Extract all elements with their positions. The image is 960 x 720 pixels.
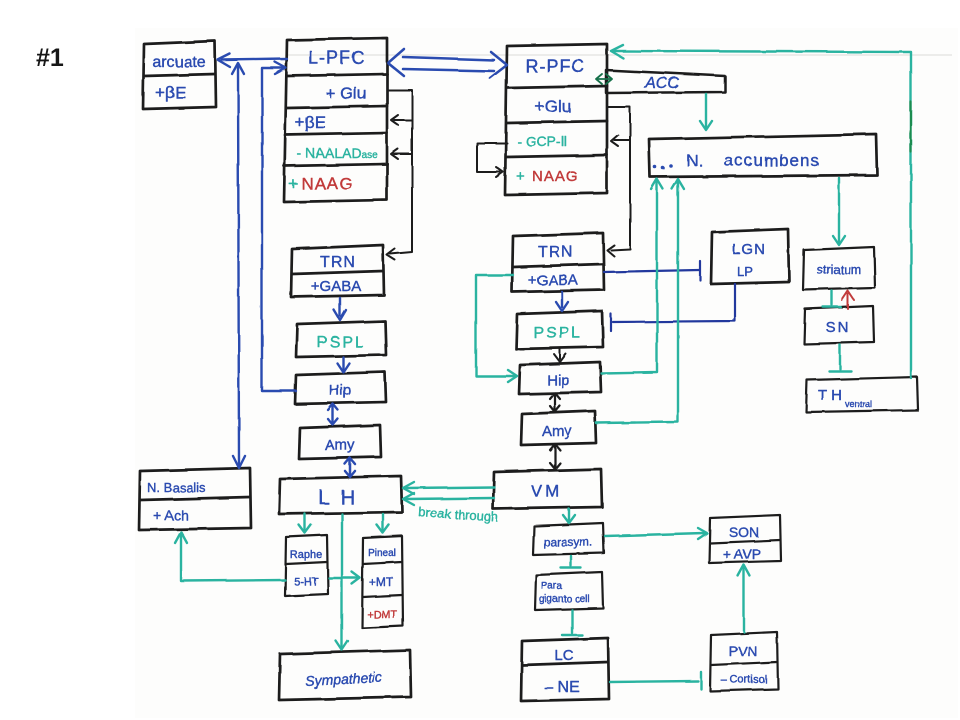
box para giganto cell: [535, 572, 603, 610]
wire SN inhibits TH (teal): [829, 345, 851, 371]
wire NE inhibits PVN (teal): [610, 672, 701, 689]
wire SN excites striatum (red): [842, 291, 854, 309]
svg-text:Amy: Amy: [542, 423, 573, 440]
svg-text:+: +: [516, 168, 525, 185]
wire PSPL-right to Hip-right (black): [554, 349, 566, 362]
box arcuate: [143, 41, 216, 109]
box N. Basalis: [139, 468, 251, 530]
box PSPL right: [516, 311, 603, 349]
svg-text:TRN: TRN: [320, 254, 356, 271]
wire Hip-left to Amy-left double arrow (blue): [328, 404, 338, 425]
svg-text:PSPL: PSPL: [317, 334, 366, 351]
photo top edge faint line: [286, 54, 952, 56]
svg-text:R-PFC: R-PFC: [525, 56, 585, 76]
svg-text:arcuate: arcuate: [152, 54, 205, 71]
wire N.accumbens to striatum (teal): [833, 178, 845, 245]
svg-text:Amy: Amy: [325, 437, 356, 454]
wire TRN-left to PSPL-left (blue): [334, 298, 346, 320]
box SON: [709, 515, 781, 563]
wire L-PFC to arcuate (blue): [218, 54, 287, 67]
wire 5-HT to +MT (teal): [329, 572, 360, 584]
box PSPL left: [296, 321, 386, 357]
label N. accumbens: [653, 164, 673, 170]
wire Amy-right to VM double arrow (black): [550, 444, 560, 469]
svg-text:ACC: ACC: [644, 75, 679, 92]
box N. accumbens: [649, 134, 877, 177]
svg-text:accumbens: accumbens: [724, 151, 820, 170]
wire Hip-right to Amy-right double arrow (black): [550, 393, 560, 412]
box TH ventral: [806, 377, 918, 412]
svg-text:ventral: ventral: [845, 399, 872, 409]
wire striatum inhibits SN (teal): [823, 291, 841, 307]
wire LH to Sympathetic (teal): [336, 514, 348, 650]
svg-text:N.: N.: [686, 151, 703, 170]
svg-text:+βE: +βE: [295, 113, 326, 132]
svg-text:– NE: – NE: [544, 679, 580, 696]
box striatum: [803, 247, 875, 290]
wire TRN-right to Hip-right loop (teal): [476, 275, 517, 382]
box Sympathetic: [279, 650, 411, 700]
wire parasym inhibits para-giganto (teal): [561, 556, 581, 568]
svg-text:5-HT: 5-HT: [294, 576, 319, 588]
wire R-stack feedback loop with arrows (black): [607, 107, 630, 256]
svg-text:+GABA: +GABA: [311, 278, 361, 295]
wire Hip-right to N.accumbens (teal): [601, 179, 663, 373]
svg-text:NAAG: NAAG: [532, 168, 579, 185]
svg-text:TH: TH: [818, 387, 846, 404]
svg-text:– Cortisol: – Cortisol: [721, 674, 767, 686]
box L-PFC stack: [284, 38, 387, 202]
svg-text:+ Ach: + Ach: [153, 507, 188, 523]
wire VM to LH double line break-through (teal): [403, 482, 494, 505]
box Hip right: [519, 362, 601, 394]
wire parasym to SON (teal): [605, 528, 707, 539]
wire Amy-right to N.accumbens (teal): [596, 179, 684, 423]
wire LH to Raphe (teal): [299, 514, 311, 533]
svg-text:+MT: +MT: [369, 575, 394, 589]
svg-text:+βE: +βE: [155, 83, 186, 102]
svg-text:+Glu: +Glu: [535, 97, 571, 116]
box R-PFC stack: [505, 44, 607, 195]
box parasym: [533, 523, 604, 555]
wire L-stack feedback loop with arrows (black): [387, 90, 412, 260]
box Amy left: [299, 425, 381, 459]
svg-text:NAAG: NAAG: [301, 174, 353, 193]
svg-text:LP: LP: [737, 264, 753, 279]
wire para-giganto inhibits LC (teal): [562, 610, 582, 635]
wire Hip-left to L-PFC (blue): [262, 62, 296, 391]
svg-text:N. Basalis: N. Basalis: [147, 480, 206, 495]
svg-text:+ Glu: + Glu: [325, 84, 366, 103]
svg-text:+DMT: +DMT: [367, 609, 398, 621]
svg-text:#1: #1: [36, 44, 64, 72]
wire VM to parasym (teal): [563, 509, 575, 523]
wire LGN inhibits PSPL-right (navy): [611, 284, 735, 331]
svg-text:+: +: [288, 174, 298, 193]
svg-text:VM: VM: [531, 482, 563, 501]
wire Amy-left to LH double arrow (blue): [345, 458, 355, 477]
wire R-PFC to ACC tiny double arrow (dark green): [596, 74, 612, 84]
wire green segment of right-side teal line: [910, 102, 912, 152]
svg-text:Raphe: Raphe: [290, 549, 322, 561]
wire 5-HT to N.Basalis (teal): [175, 532, 285, 581]
svg-text:Para: Para: [541, 581, 563, 592]
wire TH up right side to R-PFC (teal): [611, 45, 911, 378]
svg-text:PSPL: PSPL: [534, 325, 583, 342]
box LGN LP: [711, 229, 789, 284]
svg-text:Hip: Hip: [329, 382, 352, 399]
box Hip left: [295, 372, 386, 404]
svg-text:L-PFC: L-PFC: [308, 48, 365, 68]
wire GCP-II to NAAG loop (black): [477, 143, 507, 177]
box SN: [804, 306, 874, 344]
svg-text:parasym.: parasym.: [543, 535, 592, 549]
box ACC: [606, 70, 725, 93]
box LH: [279, 476, 402, 514]
svg-text:Pineal: Pineal: [368, 548, 396, 559]
wire PSPL-left to Hip-left (blue): [337, 357, 349, 372]
box TRN right: [512, 233, 604, 292]
wire LH to Pineal (teal): [377, 514, 389, 533]
wire L-PFC to R-PFC double arrow (blue): [388, 49, 507, 78]
box LC: [521, 638, 609, 701]
wire vertical double-headed to N.Basalis (blue): [232, 63, 245, 468]
svg-text:LC: LC: [554, 647, 573, 664]
box Pineal: [362, 536, 403, 628]
svg-text:L H: L H: [318, 487, 357, 509]
box TRN left: [291, 245, 384, 297]
svg-text:- GCP-Ⅱ: - GCP-Ⅱ: [517, 133, 567, 149]
wire TRN-right to PSPL-right (blue): [556, 292, 568, 311]
svg-text:SON: SON: [729, 524, 759, 540]
box VM: [493, 469, 602, 509]
wire +GABA-right inhibits LGN (navy): [604, 261, 700, 280]
svg-text:Hip: Hip: [547, 372, 570, 389]
svg-text:+GABA: +GABA: [528, 272, 578, 289]
svg-text:TRN: TRN: [538, 244, 574, 261]
box Raphe: [285, 535, 328, 596]
box PVN: [710, 632, 778, 691]
svg-text:PVN: PVN: [729, 643, 758, 659]
svg-text:striatum: striatum: [817, 263, 861, 277]
svg-text:giganto cell: giganto cell: [539, 594, 590, 605]
svg-text:+ AVP: + AVP: [723, 546, 761, 562]
svg-text:SN: SN: [826, 319, 851, 336]
wire PVN to SON (teal): [738, 565, 750, 632]
wire ACC to N.accumbens (teal): [700, 94, 712, 130]
box Amy right: [521, 411, 596, 445]
svg-text:LGN: LGN: [732, 241, 766, 258]
